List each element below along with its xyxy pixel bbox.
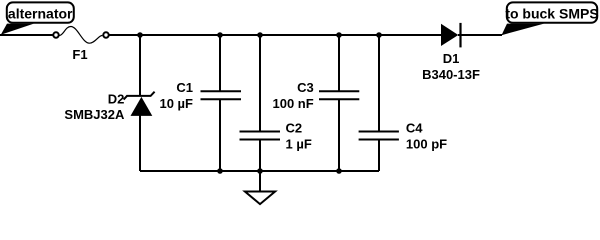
svg-text:C3: C3: [297, 80, 314, 95]
svg-text:100 nF: 100 nF: [273, 96, 314, 111]
svg-text:C1: C1: [176, 80, 193, 95]
svg-text:alternator: alternator: [8, 6, 73, 22]
svg-text:SMBJ32A: SMBJ32A: [64, 107, 125, 122]
svg-text:D2: D2: [108, 92, 125, 107]
svg-text:C2: C2: [286, 121, 303, 136]
svg-text:D1: D1: [443, 51, 460, 66]
svg-text:100 pF: 100 pF: [406, 136, 447, 151]
svg-text:B340-13F: B340-13F: [422, 67, 480, 82]
svg-text:C4: C4: [406, 121, 423, 136]
svg-text:to buck SMPS: to buck SMPS: [505, 6, 598, 22]
svg-text:1 µF: 1 µF: [286, 136, 312, 151]
svg-text:F1: F1: [72, 47, 87, 62]
svg-text:10 µF: 10 µF: [159, 96, 193, 111]
